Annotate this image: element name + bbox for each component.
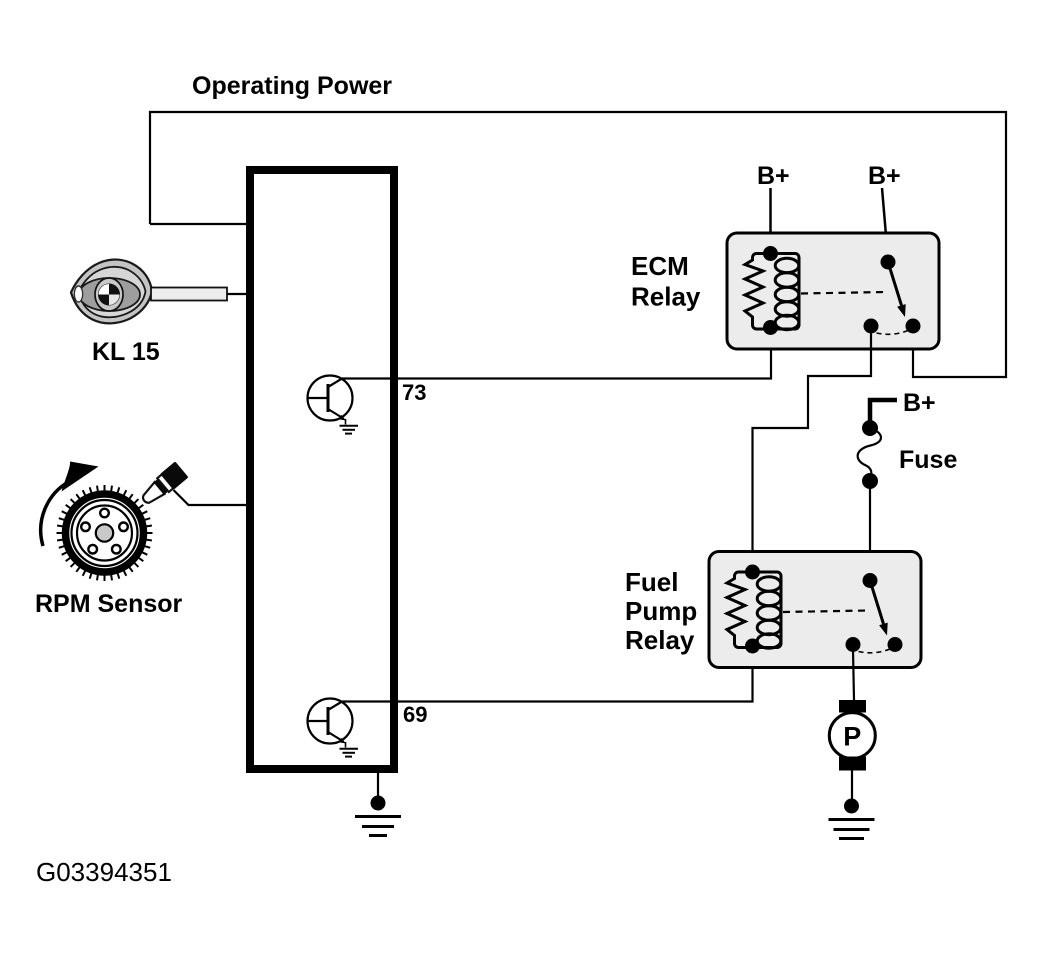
transistor output stage pin 69 : circle xyxy=(308,699,353,744)
wire: RPM sensor to ECM xyxy=(174,490,250,505)
wire: ECM box to ground xyxy=(377,769,379,801)
wire: pump to ground xyxy=(851,770,853,804)
relay ECM relay coil winding loops xyxy=(775,258,799,272)
transistor 69 emitter lead with arrow xyxy=(328,732,341,740)
svg-text:Fuse: Fuse xyxy=(899,446,957,474)
wire: B+ stub to fuse xyxy=(870,400,897,424)
ECM ground junction dot xyxy=(371,796,386,811)
relay ECM relay contact dashed link xyxy=(877,331,909,335)
fuel pump motor: body xyxy=(829,713,875,759)
svg-text:Operating Power: Operating Power xyxy=(192,72,392,100)
wire: ECM relay NO contact to fuel pump relay coil xyxy=(753,333,872,576)
wire: key to ECM xyxy=(227,293,249,295)
key KL15 emblem ring xyxy=(95,278,123,311)
transistor 73 emitter lead with arrow xyxy=(328,409,341,417)
transistor stage pin 69 xyxy=(308,699,359,757)
key KL15 dark face oval xyxy=(79,278,140,311)
relay fuel pump relay case xyxy=(709,552,921,668)
key KL15 inner shell line xyxy=(79,267,146,317)
relay fuel pump relay switch contact output (dot) xyxy=(888,637,903,652)
svg-text:69: 69 xyxy=(403,702,427,727)
ECM relay xyxy=(727,233,939,349)
relay ECM relay switch contact output (dot) xyxy=(906,319,921,334)
relay fuel pump relay switch contact NO (dot) xyxy=(846,637,861,652)
transistor output stage pin 73 : circle xyxy=(308,376,353,421)
transistor 73 base bar xyxy=(327,384,330,412)
key KL15 blade shaft xyxy=(151,288,227,301)
svg-text:P: P xyxy=(843,722,861,752)
wire: fuse to fuel pump relay switch xyxy=(869,481,871,578)
svg-text:RPM Sensor: RPM Sensor xyxy=(35,590,183,618)
fuel pump motor: bottom terminal xyxy=(839,757,866,771)
relay ECM relay coil pin top (dot) xyxy=(763,246,778,261)
transistor 69 base bar xyxy=(327,707,330,735)
transistor 69 base lead xyxy=(308,720,329,722)
relay ECM relay switch common pin (dot) xyxy=(881,255,896,270)
fuel pump ground ground symbol xyxy=(829,818,875,821)
RPM sensor rotation arrow xyxy=(41,481,70,546)
RPM sensor wheel hub xyxy=(96,524,113,541)
transistor stage pin 73 xyxy=(308,376,359,434)
RPM sensor wheel bolt holes xyxy=(100,509,109,518)
relay fuel pump relay contact dashed link xyxy=(859,649,891,653)
fuse top junction dot xyxy=(862,420,878,436)
relay ECM relay coil pin bottom (dot) xyxy=(763,320,778,335)
svg-text:Relay: Relay xyxy=(631,282,701,312)
svg-text:Relay: Relay xyxy=(625,625,695,655)
RPM sensor wheel inner rings xyxy=(72,500,138,566)
wire: B+ to ECM relay coil xyxy=(769,188,772,250)
relay fuel pump relay switch arm with arrowhead xyxy=(870,581,884,625)
wire: operating power into ECM xyxy=(150,223,249,225)
relay ECM relay switch arm with arrowhead xyxy=(888,262,902,306)
relay fuel pump relay coil pin bottom (dot) xyxy=(745,639,760,654)
relay fuel pump relay actuation dashed link xyxy=(783,611,868,613)
RPM sensor toothed wheel teeth xyxy=(145,532,153,534)
RPM sensor pickup probe xyxy=(138,461,189,508)
relay ECM relay coil frame and resistor zigzag xyxy=(745,254,799,330)
fuel pump ground junction dot xyxy=(844,799,859,814)
wire: pin 73 to ECM relay coil xyxy=(342,334,771,379)
fuel pump motor: top terminal xyxy=(839,700,866,713)
svg-text:73: 73 xyxy=(402,380,426,405)
svg-text:B+: B+ xyxy=(757,162,790,190)
relay ECM relay actuation dashed link xyxy=(801,292,886,294)
transistor 73 base lead xyxy=(308,397,329,399)
RPM sensor wheel rim xyxy=(66,494,144,572)
svg-text:KL 15: KL 15 xyxy=(92,338,160,366)
transistor 73 emitter ground symbol xyxy=(345,419,347,425)
svg-text:Pump: Pump xyxy=(625,596,697,626)
wire: fuel pump relay contact to pump xyxy=(853,650,854,700)
svg-text:B+: B+ xyxy=(868,162,901,190)
transistor 69 emitter ground symbol xyxy=(345,742,347,748)
relay fuel pump relay switch common pin (dot) xyxy=(863,573,878,588)
ECM module box xyxy=(250,170,394,769)
key KL15 left white notch xyxy=(74,286,82,302)
svg-text:B+: B+ xyxy=(903,389,936,417)
svg-text:G03394351: G03394351 xyxy=(36,857,172,887)
transistor 69 collector lead xyxy=(328,702,342,711)
relay ECM relay switch contact NO (dot) xyxy=(864,319,879,334)
fuse element (squiggle) xyxy=(858,428,881,478)
wire: operating power bus (top and right side) xyxy=(150,112,1006,377)
transistor 73 collector lead xyxy=(328,379,342,388)
relay fuel pump relay coil frame and resistor zigzag xyxy=(727,572,781,648)
fuel pump relay xyxy=(709,552,921,668)
relay fuel pump relay coil winding loops xyxy=(757,577,781,591)
svg-text:Fuel: Fuel xyxy=(625,567,678,597)
wire: B+ to ECM relay switch xyxy=(882,188,888,259)
wire: pin 69 to fuel pump relay coil xyxy=(342,651,753,702)
svg-text:ECM: ECM xyxy=(631,251,689,281)
ignition key KL15 head outer shell xyxy=(71,260,152,324)
fuse bottom junction dot xyxy=(862,473,878,489)
relay ECM relay case xyxy=(727,233,939,349)
ECM ground ground symbol xyxy=(355,815,401,818)
key KL15 BMW roundel xyxy=(98,284,120,306)
relay fuel pump relay coil pin top (dot) xyxy=(745,565,760,580)
